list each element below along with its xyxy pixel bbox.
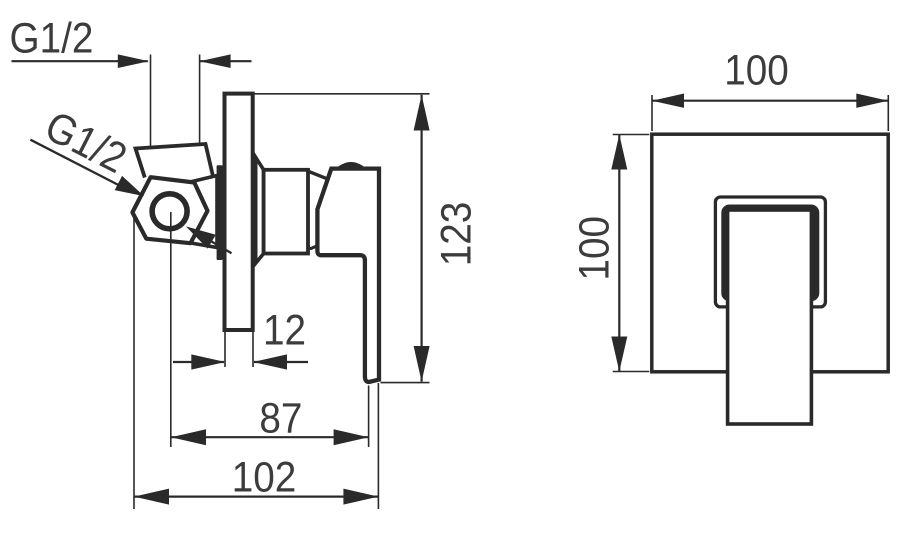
svg-text:102: 102: [232, 452, 297, 500]
svg-text:G1/2: G1/2: [10, 14, 94, 62]
svg-text:100: 100: [724, 45, 789, 93]
svg-text:87: 87: [259, 393, 302, 441]
svg-text:123: 123: [432, 202, 480, 267]
svg-text:100: 100: [570, 216, 618, 281]
svg-text:12: 12: [263, 306, 306, 354]
